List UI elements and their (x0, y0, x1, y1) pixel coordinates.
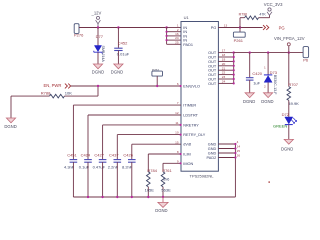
wire OUT bus (218, 53, 233, 84)
svg-text:563E: 563E (161, 187, 171, 192)
capacitor C437 (108, 152, 121, 169)
svg-text:DGND: DGND (4, 124, 16, 129)
svg-text:18: 18 (222, 53, 226, 57)
svg-text:105E: 105E (145, 187, 155, 192)
svg-text:VIN_FPGA_12V: VIN_FPGA_12V (274, 36, 305, 41)
wire IN pin stubs (167, 28, 181, 45)
resistor R707 (287, 53, 299, 117)
svg-text:C452: C452 (118, 40, 128, 45)
svg-text:OUT: OUT (208, 64, 217, 68)
svg-text:SMBJ14A: SMBJ14A (101, 46, 105, 63)
svg-text:23: 23 (222, 75, 226, 79)
svg-text:EN/UVLO: EN/UVLO (183, 85, 200, 89)
svg-text:GND: GND (208, 143, 217, 147)
svg-text:DGND: DGND (155, 208, 167, 213)
node IMON pin dot (180, 162, 182, 164)
svg-text:C424: C424 (81, 152, 91, 157)
svg-text:OUT: OUT (208, 73, 217, 77)
wire D77 branch (97, 28, 99, 46)
node EN junction (97, 85, 99, 87)
svg-text:P261: P261 (234, 38, 244, 43)
wire IN bus vertical (166, 28, 168, 45)
svg-text:PG: PG (211, 26, 217, 30)
ground DGND under C452 (111, 64, 123, 74)
svg-text:6: 6 (177, 82, 179, 86)
svg-text:DGND: DGND (92, 69, 104, 74)
svg-text:OUT: OUT (208, 82, 217, 86)
connector P6 (303, 47, 309, 63)
svg-text:C437: C437 (109, 152, 119, 157)
wire PG stub (218, 27, 262, 29)
node RETRY pin dot (180, 134, 182, 136)
svg-text:8: 8 (177, 150, 179, 154)
wire dVdt net (132, 144, 181, 159)
node dots GND bus (234, 143, 236, 159)
ground DGND under D72 (281, 139, 293, 151)
svg-text:C451: C451 (67, 152, 77, 157)
capacitor C426 (122, 152, 136, 169)
node dots OUT bus (233, 51, 235, 84)
svg-text:47K: 47K (259, 12, 266, 16)
node NRETRY pin dot (180, 124, 182, 126)
wire C452 branch (117, 28, 119, 48)
svg-text:17: 17 (222, 49, 226, 53)
svg-text:DGND: DGND (261, 99, 273, 104)
wire ILIM net (148, 154, 181, 172)
svg-text:D72: D72 (282, 112, 290, 117)
svg-text:P276: P276 (74, 32, 84, 37)
svg-text:IMON: IMON (183, 162, 193, 166)
svg-text:RETRY_DLY: RETRY_DLY (183, 133, 205, 137)
svg-text:12: 12 (175, 111, 179, 115)
svg-text:19: 19 (222, 58, 226, 62)
LED D72 green (273, 112, 297, 139)
svg-text:OUT: OUT (208, 78, 217, 82)
node VIN tap (288, 51, 290, 53)
svg-text:OUT: OUT (208, 69, 217, 73)
svg-text:C426: C426 (123, 152, 133, 157)
svg-text:C427: C427 (94, 152, 104, 157)
wire R788 left to ground (10, 96, 12, 118)
svg-text:LDSTRT: LDSTRT (183, 114, 198, 118)
svg-text:5N6: 5N6 (163, 178, 169, 182)
node IN bus junction (165, 26, 167, 28)
svg-text:NRETRY: NRETRY (183, 123, 199, 127)
svg-text:1: 1 (264, 65, 266, 69)
svg-text:DGND: DGND (111, 69, 123, 74)
svg-text:GND: GND (208, 147, 217, 151)
capacitor C427 (93, 152, 107, 169)
ground DGND under C420 (243, 93, 255, 104)
label PG port (263, 25, 285, 31)
svg-text:VCC_3V3: VCC_3V3 (264, 2, 283, 7)
capacitor C452 (114, 40, 130, 56)
IC U1 body (181, 15, 218, 178)
node C420 tap (249, 51, 251, 53)
svg-text:1uF: 1uF (253, 81, 260, 86)
svg-text:25: 25 (175, 40, 179, 44)
wire GND bus right (218, 144, 235, 197)
svg-text:R788: R788 (41, 90, 51, 95)
svg-text:P6: P6 (303, 57, 309, 62)
power symbol _12V (91, 11, 102, 28)
pin numbers GND pins (237, 140, 241, 158)
svg-text:15: 15 (175, 140, 179, 144)
wire cap bottoms to ground rail (73, 162, 131, 197)
wire ground rail (73, 196, 235, 198)
wire LDSTRT net (88, 115, 181, 159)
svg-text:PAD1: PAD1 (183, 43, 193, 47)
svg-text:2: 2 (264, 85, 266, 89)
diode D73 (264, 53, 278, 96)
node junction C452 tap (117, 26, 119, 28)
svg-text:10K: 10K (65, 90, 72, 95)
wire IMON net (163, 163, 181, 172)
resistor R796 (239, 12, 270, 27)
svg-text:20: 20 (222, 62, 226, 66)
svg-text:TPS25982NL: TPS25982NL (190, 173, 215, 178)
node EN pin dot (180, 85, 182, 87)
resistor R784 (145, 168, 158, 197)
svg-text:DGND: DGND (243, 99, 255, 104)
svg-text:21: 21 (222, 66, 226, 70)
svg-text:14: 14 (237, 145, 241, 149)
svg-text:PG: PG (279, 26, 285, 31)
svg-text:ILIM: ILIM (183, 153, 190, 157)
capacitor C420 (246, 53, 263, 93)
svg-text:11: 11 (175, 121, 178, 125)
connector P276 (74, 24, 84, 38)
wire RETRY_DLY net (117, 135, 181, 160)
svg-text:OUT: OUT (208, 60, 217, 64)
pin numbers OUT pins (222, 49, 226, 84)
resistor R788 pulldown (11, 86, 98, 98)
connector P262 (152, 68, 163, 86)
svg-text:4: 4 (237, 140, 239, 144)
power symbol VCC_3V3 (264, 2, 283, 15)
svg-text:PAD2: PAD2 (207, 156, 217, 160)
IC U1 right pin names (207, 26, 217, 160)
label EN PWR port (44, 83, 71, 88)
node dots on IN bus (166, 31, 168, 42)
node P262 junction (156, 85, 158, 87)
label VIN_FPGA_12V (274, 36, 305, 52)
svg-text:49.9K: 49.9K (288, 101, 299, 106)
node D73 tap (267, 51, 269, 53)
svg-text:U1: U1 (184, 15, 190, 20)
ground DGND under D77 (92, 64, 104, 74)
svg-text:C420: C420 (252, 71, 262, 76)
pin numbers IN pins (175, 24, 179, 45)
wire D77 to ground (97, 52, 99, 64)
wire 12V rail (79, 27, 167, 29)
svg-text:ITIMER: ITIMER (183, 104, 196, 108)
svg-text:dVdt: dVdt (183, 143, 192, 147)
wire ITIMER net (73, 105, 181, 159)
svg-text:R707: R707 (288, 82, 298, 87)
svg-text:10: 10 (175, 131, 179, 135)
svg-text:D77: D77 (96, 34, 104, 39)
connector P261 (233, 28, 245, 44)
IC U1 left pin names (183, 26, 205, 166)
svg-text:25: 25 (237, 149, 241, 153)
node PG junction (239, 26, 241, 28)
svg-text:9: 9 (177, 159, 179, 163)
capacitor C424 (79, 152, 92, 169)
svg-text:24: 24 (222, 80, 226, 84)
wire VOUT main (234, 52, 303, 54)
wire C452 to ground (117, 51, 119, 65)
svg-text:22: 22 (222, 71, 226, 75)
node dots on ground rail (87, 196, 164, 198)
svg-text:_12V: _12V (91, 11, 102, 16)
svg-text:OUT: OUT (208, 56, 217, 60)
capacitor C451 (64, 152, 78, 169)
svg-text:OUT: OUT (208, 51, 217, 55)
svg-text:8.2nF: 8.2nF (122, 165, 133, 170)
ground DGND main (155, 197, 168, 213)
svg-text:0.47uF: 0.47uF (93, 165, 106, 170)
svg-text:GND: GND (208, 152, 217, 156)
svg-text:7: 7 (177, 101, 179, 105)
svg-text:EN, PWR: EN, PWR (44, 83, 62, 88)
node junction D77 tap (97, 26, 99, 28)
diode D77 TVS (94, 34, 105, 63)
node ILIM pin dot (180, 153, 182, 155)
wire EN net (71, 85, 181, 87)
svg-text:B530C-13-F: B530C-13-F (273, 75, 277, 95)
svg-text:13: 13 (224, 23, 228, 27)
svg-text:DGND: DGND (281, 147, 293, 152)
stray mark (268, 181, 270, 182)
svg-text:26: 26 (237, 154, 241, 158)
wire NRETRY net (103, 125, 181, 159)
ground DGND at R788 (4, 118, 16, 129)
resistor R761 (161, 168, 172, 197)
ground DGND under D73 (261, 93, 273, 104)
